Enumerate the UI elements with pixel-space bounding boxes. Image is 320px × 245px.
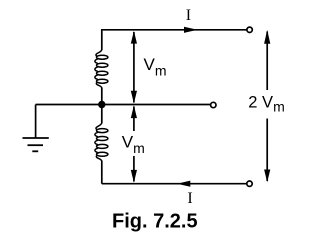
arrow Vm upper shaft bbox=[133, 32, 135, 103]
terminal top bbox=[247, 27, 252, 32]
wire left vertical bottom lead bbox=[101, 161, 103, 184]
arrowhead 2Vm bottom (points down) bbox=[264, 170, 270, 183]
svg-text:Vm: Vm bbox=[144, 55, 167, 79]
arrowhead Vm upper top (points up) bbox=[131, 31, 137, 44]
svg-text:I: I bbox=[186, 7, 191, 24]
wire ground lead vertical bbox=[35, 105, 37, 139]
node dot centre tap bbox=[98, 101, 105, 108]
terminal middle bbox=[211, 102, 216, 107]
wire left vertical top lead bbox=[101, 29, 103, 50]
arrow Vm lower shaft lower segment bbox=[133, 156, 135, 182]
arrowhead I bottom (points left) bbox=[177, 181, 190, 187]
arrowhead I top (points right) bbox=[184, 27, 198, 33]
wire bottom horizontal bbox=[102, 183, 247, 185]
arrowhead Vm lower bottom (points down) bbox=[131, 170, 137, 183]
wire between centre tap and lower winding bbox=[101, 105, 103, 124]
arrowhead 2Vm top (points up) bbox=[264, 30, 270, 44]
terminal bottom bbox=[247, 181, 252, 186]
arrowhead Vm lower top (points up) bbox=[131, 105, 137, 118]
wire top horizontal bbox=[102, 29, 247, 31]
arrow Vm lower shaft upper segment bbox=[133, 107, 135, 132]
wire between upper winding and centre tap bbox=[101, 88, 103, 105]
svg-text:2 Vm: 2 Vm bbox=[248, 93, 284, 114]
svg-text:Vm: Vm bbox=[122, 132, 145, 156]
inductor L2 (lower half winding) bbox=[95, 123, 108, 162]
arrow 2Vm shaft lower segment bbox=[266, 119, 268, 182]
wire centre tap horizontal bbox=[36, 104, 211, 106]
inductor L1 (upper half winding) bbox=[95, 49, 108, 88]
arrow 2Vm shaft upper segment bbox=[266, 32, 268, 91]
ground symbol bbox=[23, 138, 49, 151]
svg-text:I: I bbox=[187, 190, 192, 207]
arrowhead Vm upper bottom (points down) bbox=[131, 91, 137, 104]
svg-text:Fig. 7.2.5: Fig. 7.2.5 bbox=[112, 210, 198, 232]
